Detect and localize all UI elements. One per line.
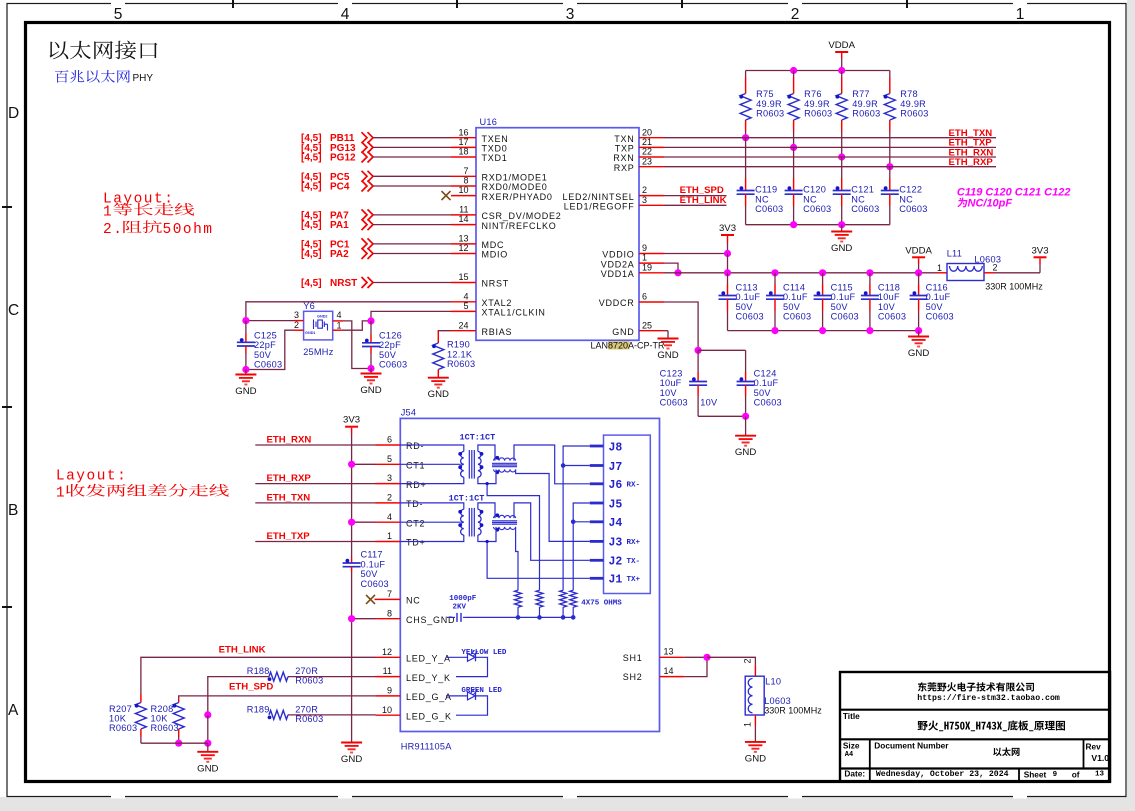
wire PA2 to U16 (373, 253, 451, 255)
Y6 pin 3 (294, 320, 304, 322)
svg-text:TXEN: TXEN (482, 134, 509, 144)
J54 pin 9 LED_G_A (376, 695, 401, 697)
wire LED_G_K row (288, 714, 376, 716)
wire R75 to line (745, 132, 747, 138)
wire 3V3 column (351, 434, 353, 558)
J54 pin 8 CHS_GND (376, 618, 401, 620)
svg-text:J2: J2 (609, 556, 623, 569)
U16 pin 15 NRST (451, 282, 476, 284)
wire TX secondary top to choke (478, 503, 495, 518)
svg-text:J1: J1 (609, 574, 623, 587)
node gnd rail C121 (838, 221, 845, 228)
J54 pin 11 LED_Y_K (376, 676, 401, 678)
U16 pin 7 RXD1/MODE1 (451, 175, 476, 177)
node R-term4 gnd rail (571, 615, 576, 620)
ground below C126 (370, 369, 372, 374)
node gnd rail R208 (175, 740, 182, 747)
svg-text:GND: GND (831, 243, 852, 254)
svg-text:CHS_GND: CHS_GND (406, 615, 455, 625)
wire primary bottom stub (400, 535, 464, 542)
svg-text:RXD1/MODE1: RXD1/MODE1 (482, 173, 548, 183)
U16 pin 6 VDDCR (639, 301, 664, 303)
svg-text:RXER/PHYAD0: RXER/PHYAD0 (482, 192, 553, 202)
contact J2 stub (590, 559, 604, 562)
U16 pin 19 VDD1A (639, 272, 664, 274)
svg-text:C0603: C0603 (754, 397, 782, 407)
svg-text:Date:: Date: (844, 769, 865, 779)
svg-text:R77: R77 (852, 89, 870, 99)
svg-text:C115: C115 (831, 283, 853, 293)
svg-text:ETH_LINK: ETH_LINK (680, 195, 727, 206)
svg-text:TXD1: TXD1 (482, 153, 508, 163)
svg-text:13: 13 (1095, 771, 1105, 779)
svg-text:3: 3 (387, 473, 392, 483)
wire PG13 to U16 (373, 146, 451, 148)
svg-text:C120: C120 (803, 185, 826, 195)
svg-text:49.9R: 49.9R (900, 99, 926, 109)
common-mode choke core (492, 462, 517, 464)
node rail R76 (790, 67, 797, 74)
Y6 pin 2 (294, 329, 304, 331)
svg-text:R0603: R0603 (804, 109, 832, 119)
svg-text:4: 4 (341, 6, 350, 23)
wire 3V3 down (727, 236, 729, 243)
svg-text:TXD0: TXD0 (482, 144, 508, 154)
svg-text:1: 1 (337, 321, 342, 331)
U16 pin 17 TXD0 (451, 146, 476, 148)
svg-text:NRST: NRST (482, 279, 510, 289)
svg-text:16: 16 (458, 127, 468, 137)
wire TXN line (664, 137, 996, 139)
U16 pin 10 RXER/PHYAD0 (451, 195, 476, 197)
U16 pin 8 RXD0/MODE0 (451, 185, 476, 187)
U16 pin 11 CSR_DV/MODE2 (451, 214, 476, 216)
svg-text:C0603: C0603 (851, 204, 879, 214)
wire VDD2A jog (664, 263, 678, 273)
svg-text:18: 18 (458, 147, 468, 157)
svg-text:RXP: RXP (614, 163, 635, 173)
svg-text:NINT/REFCLKO: NINT/REFCLKO (482, 221, 557, 231)
wire primary top stub (400, 445, 464, 452)
svg-text:1: 1 (1016, 6, 1025, 23)
svg-text:GND: GND (612, 327, 634, 337)
contact J7 stub (590, 464, 604, 467)
svg-text:C117: C117 (361, 550, 383, 560)
svg-text:5: 5 (114, 6, 123, 23)
node rail 3V3 (724, 269, 731, 276)
wire J5 row to r4 column (573, 503, 590, 590)
wire RXN line (664, 156, 996, 158)
svg-text:R75: R75 (756, 89, 774, 99)
svg-text:13: 13 (458, 234, 468, 244)
wire ETH_TXN (255, 502, 375, 504)
svg-text:C121: C121 (851, 185, 874, 195)
svg-text:TX-: TX- (627, 558, 641, 566)
J54 pin 13 SH1 (660, 656, 685, 658)
svg-text:Document Number: Document Number (874, 741, 949, 751)
svg-text:VDD2A: VDD2A (601, 259, 635, 269)
svg-text:LED1/REGOFF: LED1/REGOFF (564, 202, 635, 212)
svg-text:Size: Size (843, 741, 860, 751)
resistor R76 49.9R (793, 71, 795, 78)
svg-text:14: 14 (664, 666, 674, 676)
svg-text:22: 22 (642, 147, 652, 157)
svg-text:2: 2 (387, 493, 392, 503)
capacitor C120 NC (793, 147, 795, 178)
svg-text:R208: R208 (151, 704, 174, 714)
capacitor C124 0.1uF (745, 350, 747, 372)
wire R76 to line (793, 132, 795, 148)
svg-text:NRST: NRST (330, 278, 357, 289)
svg-text:ETH_SPD: ETH_SPD (229, 682, 273, 693)
wire LED2 pin to ETH_SPD (664, 195, 727, 197)
op-amp U16 body (476, 128, 639, 341)
wire termination rail to cap (466, 616, 573, 618)
svg-text:R190: R190 (447, 340, 470, 350)
svg-text:L11: L11 (947, 249, 962, 259)
crystal Y6 (304, 311, 333, 340)
transformer core (468, 450, 470, 479)
svg-text:50ohm: 50ohm (163, 222, 214, 238)
ground below C117 column (341, 743, 362, 753)
svg-text:NC: NC (406, 596, 421, 606)
resistor R-term1 75R (515, 590, 522, 607)
node VDD2A junction (674, 269, 681, 276)
svg-text:15: 15 (458, 272, 468, 282)
svg-text:8: 8 (387, 608, 392, 618)
svg-text:270R: 270R (295, 704, 318, 714)
svg-text:C126: C126 (379, 331, 402, 341)
svg-text:J3: J3 (609, 537, 623, 550)
svg-text:NC: NC (851, 194, 865, 204)
node gnd rail junction (819, 327, 826, 334)
transformer primary winding (461, 509, 464, 535)
node R76 junction (790, 144, 797, 151)
svg-text:YELLOW LED: YELLOW LED (461, 649, 507, 657)
wire VDD rail (664, 272, 937, 274)
svg-text:XTAL2: XTAL2 (482, 298, 513, 308)
svg-text:14: 14 (458, 214, 468, 224)
svg-text:RXD0/MODE0: RXD0/MODE0 (482, 182, 548, 192)
wire PC4 to U16 (373, 185, 451, 187)
J54 pin 4 CT2 (376, 521, 401, 523)
U16 pin 9 VDDIO (639, 253, 664, 255)
wire J7 row (563, 465, 590, 467)
capacitor C125 (245, 321, 247, 334)
svg-text:C119: C119 (755, 185, 777, 195)
node CT1 junction (348, 461, 355, 468)
svg-text:ETH_RXP: ETH_RXP (267, 473, 312, 484)
svg-text:HR911105A: HR911105A (401, 742, 453, 752)
svg-text:[4,5]: [4,5] (301, 153, 322, 164)
svg-text:49.9R: 49.9R (852, 99, 878, 109)
resistor R190 (437, 331, 439, 343)
svg-text:2: 2 (294, 320, 299, 330)
wire center tap (400, 521, 461, 523)
svg-text:PG12: PG12 (330, 153, 356, 164)
U16 pin 22 RXN (639, 156, 664, 158)
svg-text:10: 10 (382, 705, 392, 715)
svg-text:12.1K: 12.1K (447, 349, 473, 359)
svg-text:50V: 50V (361, 569, 379, 579)
node R-term1 gnd rail (516, 615, 521, 620)
wire ETH_RXP (255, 483, 375, 485)
node rail R77 (838, 67, 845, 74)
transformer primary winding (461, 452, 464, 478)
svg-text:23: 23 (642, 156, 652, 166)
node gnd rail C116 (915, 327, 922, 334)
node J7 junction (561, 463, 566, 468)
wire VDDCR to caps (664, 302, 698, 350)
wire ETH_RXN (255, 444, 375, 446)
ground bottom-left (207, 743, 209, 752)
svg-text:0.1uF: 0.1uF (361, 559, 386, 569)
wire RXP line (664, 166, 996, 168)
svg-text:0.1uF: 0.1uF (926, 292, 951, 302)
wire TX secondary bottom U-link (478, 527, 496, 542)
svg-text:J7: J7 (609, 461, 623, 474)
svg-text:C0603: C0603 (926, 311, 954, 321)
svg-text:3: 3 (294, 310, 299, 320)
svg-text:C: C (8, 302, 19, 319)
svg-text:8: 8 (463, 176, 468, 186)
no-connect X on U16 pin 10 (442, 191, 451, 200)
common-mode choke top winding (494, 458, 516, 461)
wire XTAL1 net (371, 311, 451, 321)
J54 pin 3 RD+ (376, 483, 401, 485)
svg-text:10K: 10K (109, 713, 127, 723)
wire VDDA rail (746, 70, 890, 72)
note NC/10pF magenta (957, 198, 967, 208)
common-mode choke core (492, 520, 517, 522)
svg-text:XTAL1/CLKIN: XTAL1/CLKIN (482, 308, 546, 318)
capacitor C118 10uF (869, 273, 871, 284)
node rail VDDA (915, 269, 922, 276)
svg-text:RX-: RX- (627, 481, 641, 489)
capacitor C123 10uF (697, 350, 699, 372)
svg-text:5: 5 (387, 454, 392, 464)
svg-text:0.1uF: 0.1uF (754, 378, 779, 388)
svg-text:C0603: C0603 (831, 311, 859, 321)
zone tick marks left (2, 206, 12, 208)
U16 pin 2 LED2/NINTSEL (639, 195, 664, 197)
svg-text:13: 13 (664, 647, 674, 657)
svg-text:LED2/NINTSEL: LED2/NINTSEL (562, 192, 634, 202)
wire C123 C124 top rail (698, 349, 746, 351)
wire LED1 pin to ETH_LINK (664, 204, 727, 206)
power 3V3 at J54 (345, 426, 358, 428)
wire CHS_GND tap (352, 618, 376, 620)
wire PG12 to U16 (373, 156, 451, 158)
svg-text:J54: J54 (401, 408, 417, 418)
wire RBIAS to R190 (438, 330, 451, 332)
svg-text:50V: 50V (831, 302, 849, 312)
U16 pin 5 XTAL1/CLKIN (451, 310, 476, 312)
svg-text:25MHz: 25MHz (303, 347, 334, 357)
power VDDA mid (912, 256, 925, 258)
node R75 junction (742, 134, 749, 141)
svg-text:A: A (8, 702, 19, 719)
wire R188 to column (208, 677, 269, 715)
resistor R189 270R (269, 710, 288, 719)
svg-text:1: 1 (937, 263, 942, 273)
svg-text:20: 20 (642, 127, 652, 137)
svg-text:MDC: MDC (482, 240, 505, 250)
company name (918, 682, 1034, 691)
wire PA1 to U16 (373, 224, 451, 226)
svg-text:R0603: R0603 (447, 359, 475, 369)
node R78 junction (886, 163, 893, 170)
svg-text:VDD1A: VDD1A (601, 269, 635, 279)
node R-term2 gnd rail (537, 615, 542, 620)
wire primary top stub (400, 503, 464, 510)
node CT2 junction (348, 519, 355, 526)
svg-text:TD-: TD- (406, 499, 423, 509)
svg-text:3: 3 (566, 6, 575, 23)
capacitor C122 NC (889, 167, 891, 178)
node R77 junction (838, 153, 845, 160)
wire ETH_TXP (255, 541, 375, 543)
svg-text:3V3: 3V3 (343, 415, 360, 426)
J54 pin 14 SH2 (660, 676, 685, 678)
node C126 bottom junction (367, 365, 374, 372)
wire CT1 tap (352, 463, 376, 465)
svg-text:3V3: 3V3 (719, 223, 736, 234)
node XTAL2/C125 junction (242, 317, 249, 324)
svg-text:C123: C123 (660, 369, 683, 379)
svg-text:NC: NC (803, 194, 817, 204)
wire NRST to U16 (373, 282, 451, 284)
resistor R188 270R (269, 672, 288, 681)
svg-text:ETH_LINK: ETH_LINK (219, 645, 266, 656)
common-mode choke bottom winding (494, 527, 516, 530)
svg-text:2: 2 (993, 263, 998, 273)
inductor L10 (745, 676, 764, 715)
svg-text:LED_G_K: LED_G_K (406, 711, 452, 721)
svg-text:Rev: Rev (1086, 741, 1102, 751)
wire ETH_LINK (141, 657, 376, 694)
wire TX bottom to J1 (487, 542, 590, 579)
U16 part value LAN8720A-CP-TR (608, 341, 630, 350)
svg-text:PA2: PA2 (330, 249, 349, 260)
svg-text:50V: 50V (379, 350, 397, 360)
svg-text:D: D (8, 105, 19, 122)
svg-text:GND: GND (735, 447, 756, 458)
wire PB11 to U16 (373, 137, 451, 139)
power VDDA top (835, 51, 848, 53)
no-connect X on J54 pin 7 (366, 595, 375, 604)
svg-text:50V: 50V (926, 302, 944, 312)
svg-text:Layout:: Layout: (56, 469, 127, 485)
svg-text:Title: Title (843, 711, 860, 721)
svg-text:[4,5]: [4,5] (301, 220, 322, 231)
svg-text:4: 4 (463, 291, 468, 301)
svg-text:1CT:1CT: 1CT:1CT (460, 433, 496, 443)
subtitle 百兆以太网PHY (55, 70, 130, 83)
U16 pin 24 RBIAS (451, 330, 476, 332)
svg-text:VDDA: VDDA (905, 245, 932, 256)
svg-text:6: 6 (387, 435, 392, 445)
J54 pin 12 LED_Y_A (376, 656, 401, 658)
common-mode choke bottom winding (494, 469, 516, 472)
svg-text:U16: U16 (480, 117, 498, 127)
svg-text:R0603: R0603 (295, 714, 323, 724)
svg-text:270R: 270R (295, 666, 318, 676)
capacitor 1000pF 2KV (447, 616, 455, 618)
svg-text:21: 21 (642, 137, 652, 147)
svg-text:3: 3 (642, 195, 647, 205)
svg-text:C0603: C0603 (783, 311, 811, 321)
wire column to gnd rail (207, 715, 209, 743)
U16 pin 20 TXN (639, 137, 664, 139)
svg-text:CT2: CT2 (406, 518, 425, 528)
svg-text:R0603: R0603 (900, 109, 928, 119)
svg-text:LED_Y_A: LED_Y_A (406, 654, 451, 664)
node C123 top junction (695, 347, 702, 354)
wire SH2 jog (684, 657, 707, 676)
wire PC5 to U16 (373, 175, 451, 177)
svg-text:R0603: R0603 (151, 723, 179, 733)
svg-text:7: 7 (387, 589, 392, 599)
svg-text:of: of (1072, 770, 1080, 780)
svg-text:5: 5 (463, 301, 468, 311)
svg-text:2.: 2. (103, 222, 123, 238)
capacitor C121 NC (841, 157, 843, 178)
wire RX choke bottom to J3 (516, 469, 590, 541)
wire L11 to 3V3 (994, 272, 1040, 274)
svg-text:VDDIO: VDDIO (602, 250, 634, 260)
svg-text:12: 12 (458, 243, 468, 253)
svg-text:ETH_RXP: ETH_RXP (949, 157, 994, 168)
wire Y6.1 to C126 top (342, 321, 371, 330)
inductor L11 pin 2 (984, 272, 994, 274)
wire Y6.2 to GND rail (246, 330, 294, 369)
svg-text:RXN: RXN (613, 153, 634, 163)
svg-text:[4,5]: [4,5] (301, 182, 322, 193)
svg-text:10V: 10V (878, 302, 896, 312)
ground below R190 (428, 378, 449, 388)
node gnd rail junction (866, 327, 873, 334)
svg-text:C125: C125 (254, 331, 277, 341)
wire C123 C124 bottom rail (698, 415, 746, 417)
svg-text:CT1: CT1 (406, 461, 425, 471)
svg-text:24: 24 (458, 320, 468, 330)
svg-text:R76: R76 (804, 89, 822, 99)
node VDDIO junction (724, 250, 731, 257)
svg-text:GND2: GND2 (317, 315, 328, 319)
node SH junction (703, 654, 710, 661)
wire J4 row (573, 521, 590, 523)
U16 pin 23 RXP (639, 166, 664, 168)
svg-text:RBIAS: RBIAS (482, 327, 513, 337)
svg-text:19: 19 (642, 262, 652, 272)
J54 pin 1 TD+ (376, 541, 401, 543)
svg-text:GND: GND (745, 753, 766, 764)
U16 pin 25 GND (639, 330, 664, 332)
resistor R207 10K (140, 694, 142, 703)
ground decoupling rail (918, 331, 920, 337)
svg-text:RD-: RD- (406, 441, 424, 451)
capacitor C117 (351, 558, 353, 563)
node R189 junction (204, 711, 211, 718)
svg-text:GND: GND (341, 754, 362, 765)
wire primary bottom stub (400, 477, 464, 484)
svg-text:PA1: PA1 (330, 220, 349, 231)
node gnd rail junction (771, 327, 778, 334)
svg-text:25: 25 (642, 320, 652, 330)
svg-text:TD+: TD+ (406, 538, 426, 548)
svg-text:NC: NC (755, 194, 769, 204)
